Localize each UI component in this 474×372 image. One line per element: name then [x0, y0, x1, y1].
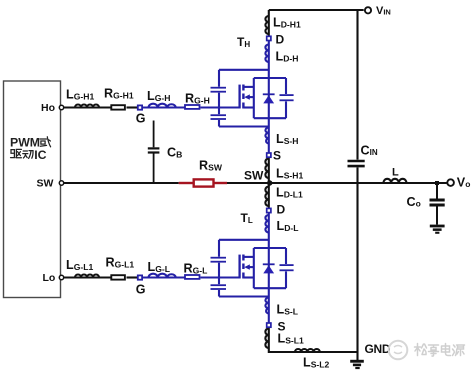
svg-text:VIN: VIN — [376, 5, 391, 17]
svg-text:S: S — [273, 149, 281, 163]
svg-text:L: L — [392, 167, 399, 179]
svg-text:GND: GND — [365, 342, 391, 356]
svg-text:S: S — [278, 320, 286, 334]
svg-text:Ho: Ho — [41, 102, 55, 114]
svg-text:SW: SW — [37, 178, 54, 190]
svg-text:IC: IC — [34, 148, 46, 162]
svg-text:G: G — [136, 283, 146, 297]
svg-text:Lo: Lo — [43, 272, 56, 284]
svg-text:SW: SW — [244, 169, 264, 183]
svg-text:D: D — [276, 33, 285, 47]
svg-text:D: D — [277, 203, 286, 217]
svg-text:G: G — [136, 112, 146, 126]
